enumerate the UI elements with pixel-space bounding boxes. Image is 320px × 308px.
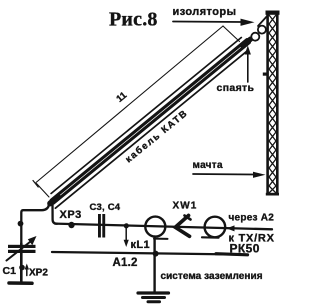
svg-text:Рис.8: Рис.8	[109, 9, 158, 31]
svg-text:через А2: через А2	[229, 213, 275, 224]
svg-text:кL1: кL1	[131, 239, 151, 251]
svg-text:С3, С4: С3, С4	[90, 202, 121, 213]
svg-text:РК50: РК50	[230, 242, 260, 256]
svg-text:ХР2: ХР2	[29, 268, 48, 279]
svg-text:мачта: мачта	[193, 160, 223, 171]
svg-text:система заземления: система заземления	[161, 271, 263, 282]
svg-text:XW1: XW1	[173, 201, 198, 212]
svg-text:С1: С1	[3, 265, 17, 277]
svg-text:А1.2: А1.2	[113, 257, 138, 269]
svg-text:ХР3: ХР3	[60, 209, 82, 221]
svg-text:изоляторы: изоляторы	[173, 6, 237, 18]
svg-text:спаять: спаять	[217, 82, 255, 94]
